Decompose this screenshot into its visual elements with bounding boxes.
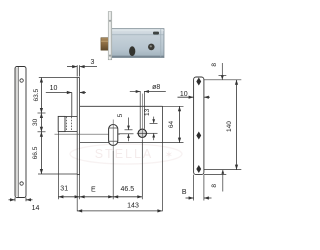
- svg-text:63.5: 63.5: [33, 88, 40, 101]
- svg-text:5: 5: [117, 113, 124, 117]
- svg-text:14: 14: [32, 205, 40, 212]
- svg-text:B: B: [182, 189, 187, 196]
- svg-text:13: 13: [144, 108, 151, 116]
- svg-text:46.5: 46.5: [120, 186, 134, 193]
- svg-text:140: 140: [226, 121, 233, 132]
- svg-text:10: 10: [50, 85, 58, 92]
- svg-text:STELLA: STELLA: [95, 147, 154, 161]
- svg-text:ø8: ø8: [152, 84, 160, 91]
- svg-text:31: 31: [60, 185, 68, 192]
- svg-text:64: 64: [168, 121, 175, 129]
- svg-text:30: 30: [32, 118, 39, 126]
- svg-text:3: 3: [91, 59, 95, 66]
- svg-text:8: 8: [211, 184, 218, 188]
- svg-text:8: 8: [211, 63, 218, 67]
- svg-text:66.5: 66.5: [32, 146, 39, 159]
- svg-text:10: 10: [180, 91, 188, 98]
- svg-text:E: E: [91, 187, 96, 194]
- svg-text:143: 143: [127, 202, 139, 209]
- svg-text:✶: ✶: [165, 150, 173, 161]
